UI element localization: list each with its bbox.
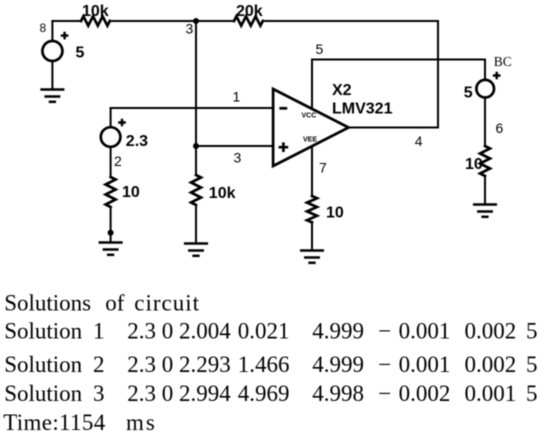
wire V1 bottom to ground xyxy=(51,61,53,88)
voltage source V2 2.3V circle xyxy=(101,127,121,147)
svg-text:Time:1154: Time:1154 xyxy=(3,410,106,435)
svg-text:2.3: 2.3 xyxy=(127,352,156,377)
svg-text:5: 5 xyxy=(526,318,538,343)
resistor R 10k (top left, horizontal) xyxy=(81,16,110,25)
wire noninverting input (node 3 net) xyxy=(196,145,273,147)
svg-text:Solution: Solution xyxy=(4,318,82,343)
wire node3 vertical down to noninverting junction xyxy=(195,21,197,146)
wire VCC to BC source xyxy=(312,59,485,61)
svg-text:2: 2 xyxy=(114,153,122,169)
wire BC top stub xyxy=(484,60,486,81)
svg-text:2.3: 2.3 xyxy=(127,381,156,406)
svg-text:5: 5 xyxy=(76,44,85,61)
svg-text:0.001: 0.001 xyxy=(399,352,451,377)
op-amp VCC pin wire (pin 5) xyxy=(311,60,313,110)
svg-text:5: 5 xyxy=(526,381,538,406)
wire V2 bottom to R10 xyxy=(110,147,112,177)
wire pin7 R10 to ground xyxy=(311,222,313,249)
svg-text:2.004: 2.004 xyxy=(179,318,231,343)
wire junction to R10k mid xyxy=(195,146,197,175)
junction dot above left ground xyxy=(108,230,114,236)
svg-text:0.002: 0.002 xyxy=(399,381,451,406)
wire feedback vertical (node 4 to top) xyxy=(437,21,439,128)
wire output op-amp to feedback corner xyxy=(349,127,438,129)
svg-text:Solution: Solution xyxy=(4,381,82,406)
svg-text:VCC: VCC xyxy=(302,113,317,120)
polarity plus of V2 xyxy=(118,119,126,127)
svg-text:0: 0 xyxy=(162,352,174,377)
svg-text:2.3: 2.3 xyxy=(126,133,148,150)
solution row 3 xyxy=(4,381,537,406)
ground under V1 xyxy=(42,90,64,102)
polarity plus of V1 xyxy=(61,32,69,40)
svg-text:2: 2 xyxy=(93,352,105,377)
svg-text:2.293: 2.293 xyxy=(179,352,231,377)
svg-text:5: 5 xyxy=(464,85,473,102)
svg-text:VEE: VEE xyxy=(303,136,317,143)
junction node 3 dot (top) xyxy=(193,18,199,24)
svg-text:0: 0 xyxy=(162,381,174,406)
svg-text:−: − xyxy=(378,381,391,406)
svg-text:4.999: 4.999 xyxy=(312,318,364,343)
svg-text:1: 1 xyxy=(93,318,105,343)
svg-text:ms: ms xyxy=(126,410,157,435)
wire R10k mid to ground xyxy=(195,205,197,242)
svg-text:4.998: 4.998 xyxy=(312,381,364,406)
svg-text:8: 8 xyxy=(40,21,47,35)
wire V2 top stub xyxy=(110,108,112,127)
svg-text:5: 5 xyxy=(526,352,538,377)
svg-text:0.021: 0.021 xyxy=(238,318,290,343)
op-amp VEE pin wire (pin 7) xyxy=(311,147,313,196)
svg-text:Solution: Solution xyxy=(4,352,82,377)
svg-text:2.3: 2.3 xyxy=(127,318,156,343)
svg-text:−: − xyxy=(378,352,391,377)
resistor R 20k (top, horizontal) xyxy=(234,16,263,25)
wire inverting input from V2 xyxy=(111,107,274,109)
ground under pin7 R10 xyxy=(301,251,323,263)
svg-text:6: 6 xyxy=(496,120,504,136)
op-amp U X2 triangle xyxy=(273,89,349,166)
svg-text:4.999: 4.999 xyxy=(312,352,364,377)
svg-text:10: 10 xyxy=(122,184,140,201)
svg-text:0.002: 0.002 xyxy=(465,352,517,377)
voltage source V1 5V circle xyxy=(42,41,62,61)
svg-text:0.001: 0.001 xyxy=(465,381,517,406)
svg-text:1: 1 xyxy=(233,89,241,105)
ground under left R10 xyxy=(100,243,122,255)
resistor R 10k (middle, vertical) xyxy=(191,175,201,205)
svg-text:2.994: 2.994 xyxy=(179,381,231,406)
resistor R 10 (left, vertical) xyxy=(106,177,116,207)
svg-text:10k: 10k xyxy=(82,3,109,20)
svg-text:10: 10 xyxy=(326,204,344,221)
svg-text:10k: 10k xyxy=(209,185,236,202)
svg-text:−: − xyxy=(378,318,391,343)
ground under middle R10k xyxy=(185,244,207,256)
svg-text:4.969: 4.969 xyxy=(238,381,290,406)
svg-text:5: 5 xyxy=(316,41,324,57)
wire BC R10 to ground xyxy=(484,176,486,203)
svg-text:4: 4 xyxy=(415,133,423,149)
ground under BC R10 xyxy=(474,205,496,217)
op-amp plus input mark xyxy=(279,142,289,152)
solution row 2 xyxy=(4,352,537,377)
svg-text:10: 10 xyxy=(465,156,483,173)
svg-text:0: 0 xyxy=(162,318,174,343)
svg-text:0.001: 0.001 xyxy=(399,318,451,343)
svg-text:BC: BC xyxy=(494,54,512,69)
svg-text:Solutions: Solutions xyxy=(4,291,91,316)
svg-text:X2: X2 xyxy=(332,82,352,99)
svg-text:20k: 20k xyxy=(236,3,263,20)
wire V1 top stub xyxy=(51,21,53,41)
svg-text:of: of xyxy=(105,291,125,316)
svg-text:circuit: circuit xyxy=(134,291,200,316)
resistor R 10 (BC branch, vertical) xyxy=(480,146,490,176)
svg-text:3: 3 xyxy=(234,149,242,165)
svg-text:1.466: 1.466 xyxy=(238,352,290,377)
svg-text:0.002: 0.002 xyxy=(465,318,517,343)
svg-text:3: 3 xyxy=(186,20,194,36)
junction dot noninverting xyxy=(193,143,199,149)
wire R10k to node 3 xyxy=(110,20,234,22)
op-amp minus input mark xyxy=(279,107,287,110)
wire R20k to right corner xyxy=(263,20,438,22)
solution row 1 xyxy=(4,318,537,343)
wire top-left V1 to R 10k xyxy=(52,20,81,22)
svg-text:7: 7 xyxy=(319,159,327,175)
voltage source V3 BC 5V circle xyxy=(476,80,494,98)
svg-text:3: 3 xyxy=(93,381,105,406)
wire BC bottom to R10 xyxy=(484,98,486,147)
resistor R 10 (pin 7, vertical) xyxy=(307,196,317,222)
wire R10 left to ground xyxy=(110,207,112,241)
svg-text:LMV321: LMV321 xyxy=(332,101,393,118)
polarity plus of V3 BC xyxy=(493,72,501,80)
